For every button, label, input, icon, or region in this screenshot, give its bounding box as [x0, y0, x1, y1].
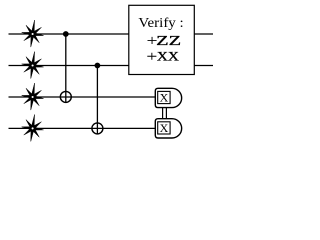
wire q4 [9, 127, 156, 129]
wire q1 right segment [194, 33, 213, 35]
measurement D q3 [155, 88, 181, 107]
CNOT1 target on q3 [60, 91, 71, 102]
vertical wire CNOT1 (q1 control to q3 target) [65, 34, 67, 102]
X gate box in measurement q4 [158, 122, 170, 134]
wire q2 left segment [9, 65, 129, 67]
measurement D q4 [155, 119, 181, 138]
plus sign of +ZZ [148, 37, 157, 44]
svg-text:X: X [160, 121, 169, 135]
error star q4 [22, 115, 44, 142]
wire q1 left segment [9, 33, 129, 35]
svg-text:Verify :: Verify : [138, 15, 183, 30]
svg-text:XX: XX [157, 50, 180, 64]
classical double wire between measurements [162, 108, 164, 119]
wire q2 right segment [194, 65, 213, 67]
error star q2 [22, 52, 44, 79]
control dot CNOT1 on q1 [63, 31, 69, 37]
svg-text:ZZ: ZZ [156, 33, 181, 48]
plus sign of +XX [147, 53, 156, 60]
error star q3 [22, 83, 44, 110]
wire q3 [9, 96, 156, 98]
vertical wire CNOT2 (q2 control to q4 target) [96, 66, 98, 134]
Verify box [129, 5, 195, 74]
control dot CNOT2 on q2 [95, 63, 101, 69]
X gate box in measurement q3 [158, 91, 170, 103]
error star q1 [22, 20, 44, 47]
CNOT2 target on q4 [92, 123, 103, 134]
svg-text:X: X [160, 91, 169, 105]
